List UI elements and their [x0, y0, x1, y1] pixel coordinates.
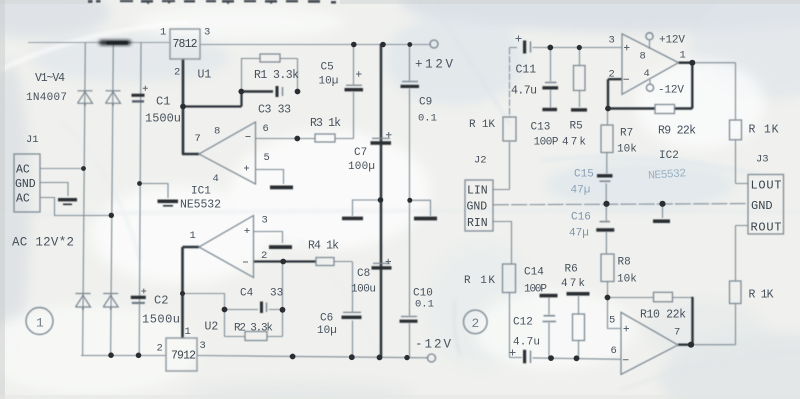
svg-text:8: 8	[640, 51, 646, 63]
svg-text:R 1K: R 1K	[749, 124, 779, 137]
svg-text:RIN: RIN	[467, 217, 488, 230]
svg-text:GND: GND	[467, 201, 488, 214]
svg-text:IC1: IC1	[191, 186, 211, 198]
svg-text:IC2: IC2	[659, 150, 679, 162]
svg-text:ROUT: ROUT	[751, 221, 782, 235]
svg-text:R4 1k: R4 1k	[308, 240, 339, 253]
svg-text:C3 33: C3 33	[258, 104, 291, 117]
svg-text:3: 3	[200, 340, 206, 352]
svg-text:AC 12V*2: AC 12V*2	[12, 236, 74, 250]
svg-text:2: 2	[157, 343, 163, 355]
svg-text:8: 8	[214, 126, 220, 138]
svg-text:C9: C9	[419, 97, 432, 109]
svg-text:2: 2	[261, 250, 267, 262]
svg-text:1500u: 1500u	[142, 313, 180, 327]
svg-text:1500u: 1500u	[145, 112, 181, 126]
svg-text:100P: 100P	[534, 137, 559, 149]
svg-text:6: 6	[611, 345, 617, 357]
svg-text:7: 7	[674, 327, 680, 339]
svg-text:7: 7	[195, 133, 201, 145]
svg-text:J1: J1	[26, 134, 39, 146]
svg-text:GND: GND	[751, 199, 773, 213]
svg-text:R7: R7	[620, 128, 633, 140]
svg-text:C14: C14	[524, 267, 544, 279]
svg-text:100u: 100u	[351, 284, 376, 296]
svg-text:5: 5	[609, 315, 615, 327]
svg-text:C13: C13	[531, 122, 551, 134]
svg-text:33: 33	[270, 288, 283, 300]
svg-text:47k: 47k	[561, 278, 585, 290]
svg-text:4: 4	[644, 68, 650, 80]
svg-text:2: 2	[174, 67, 180, 79]
svg-text:+12V: +12V	[659, 35, 685, 47]
svg-text:C15: C15	[574, 169, 594, 181]
svg-text:LIN: LIN	[467, 185, 488, 198]
svg-text:LOUT: LOUT	[751, 179, 782, 193]
svg-text:NE5532: NE5532	[180, 199, 221, 212]
svg-text:2: 2	[609, 69, 615, 81]
svg-text:C12: C12	[513, 317, 533, 329]
svg-text:3: 3	[609, 35, 615, 47]
svg-text:1: 1	[160, 27, 166, 39]
svg-text:C2: C2	[154, 294, 168, 308]
svg-text:C11: C11	[516, 64, 537, 77]
svg-text:C4: C4	[240, 288, 254, 300]
svg-text:R 1K: R 1K	[749, 289, 774, 302]
svg-text:R3 1k: R3 1k	[310, 117, 341, 130]
svg-text:R 1K: R 1K	[464, 275, 495, 287]
svg-text:R2 3.3k: R2 3.3k	[234, 323, 273, 335]
svg-text:6: 6	[263, 123, 269, 135]
svg-text:100P: 100P	[524, 284, 547, 296]
svg-text:C8: C8	[357, 268, 370, 280]
svg-text:AC: AC	[16, 164, 30, 177]
svg-text:R8: R8	[618, 257, 631, 269]
svg-text:C7: C7	[354, 147, 367, 159]
svg-text:U2: U2	[205, 321, 219, 334]
svg-text:5: 5	[264, 152, 270, 164]
svg-text:3: 3	[204, 27, 210, 39]
svg-text:7912: 7912	[171, 350, 196, 363]
svg-text:0.1: 0.1	[418, 113, 437, 125]
svg-text:U1: U1	[198, 69, 212, 82]
svg-text:1N4007: 1N4007	[26, 92, 67, 104]
svg-text:R9 22k: R9 22k	[658, 125, 696, 138]
svg-text:R1 3.3k: R1 3.3k	[254, 69, 299, 82]
svg-text:3: 3	[262, 215, 268, 227]
svg-text:-12V: -12V	[415, 338, 451, 352]
svg-text:10k: 10k	[617, 274, 637, 286]
svg-text:4.7u: 4.7u	[511, 85, 537, 98]
svg-text:C1: C1	[156, 95, 170, 109]
svg-text:V1~V4: V1~V4	[35, 72, 65, 85]
svg-text:AC: AC	[16, 193, 30, 206]
svg-text:47µ: 47µ	[571, 185, 591, 197]
svg-text:C5: C5	[321, 62, 334, 74]
svg-text:4.7u: 4.7u	[513, 337, 540, 349]
svg-text:GND: GND	[15, 178, 36, 191]
svg-text:4: 4	[213, 173, 219, 185]
svg-text:10µ: 10µ	[319, 76, 339, 88]
svg-text:C6: C6	[320, 313, 333, 325]
svg-text:2: 2	[472, 316, 480, 331]
svg-text:100µ: 100µ	[348, 161, 375, 173]
svg-text:1: 1	[680, 50, 686, 62]
svg-text:R10 22k: R10 22k	[640, 309, 686, 322]
svg-text:R6: R6	[565, 264, 578, 276]
svg-text:0.1: 0.1	[415, 299, 434, 311]
svg-text:7812: 7812	[173, 38, 198, 51]
svg-text:47k: 47k	[562, 137, 586, 149]
svg-text:1: 1	[36, 316, 44, 331]
svg-text:J3: J3	[756, 154, 769, 166]
svg-text:1: 1	[185, 326, 191, 338]
svg-text:R 1K: R 1K	[469, 119, 495, 131]
svg-text:-12V: -12V	[658, 85, 684, 97]
svg-text:J2: J2	[474, 155, 487, 167]
svg-text:10k: 10k	[617, 144, 637, 156]
svg-text:C16: C16	[571, 212, 591, 224]
svg-text:47µ: 47µ	[569, 228, 589, 240]
svg-text:10µ: 10µ	[317, 325, 337, 337]
svg-text:NE5532: NE5532	[648, 167, 687, 183]
svg-text:1: 1	[190, 230, 196, 242]
svg-text:R5: R5	[570, 121, 583, 133]
